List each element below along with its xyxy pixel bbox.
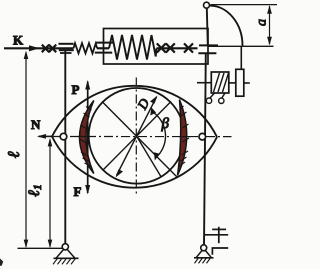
armature link vertical <box>240 46 242 69</box>
coil terminal stem right <box>222 93 225 98</box>
lens lever bottom arc <box>52 137 217 188</box>
pivot circle right <box>199 133 206 140</box>
axis vertical dash-dot <box>135 78 137 197</box>
pivot circle top right <box>204 2 210 8</box>
node K arrowhead <box>29 45 40 51</box>
radial lower right <box>137 136 162 178</box>
lever right main <box>204 53 206 245</box>
clevis plate lower left <box>59 49 74 51</box>
arrow F down <box>85 185 90 195</box>
force line P-F vertical <box>87 82 89 194</box>
wire between coil and armature <box>229 82 236 84</box>
support left base line <box>54 257 79 259</box>
angle beta arc <box>152 112 165 158</box>
force N arrow <box>39 135 54 137</box>
svg-text:P: P <box>72 82 80 97</box>
spring S1 small <box>74 43 98 53</box>
diameter D arrow line <box>117 97 157 176</box>
support right hatching <box>195 258 211 264</box>
joint cross X1 <box>42 45 49 53</box>
support right triangle <box>196 251 212 258</box>
slider plate lower right <box>198 52 216 54</box>
rod segment after big spring <box>157 47 198 49</box>
support left triangle <box>56 250 75 259</box>
svg-text:ℓ: ℓ <box>4 151 23 158</box>
corner smudge bottom left <box>0 259 3 267</box>
svg-text:β: β <box>161 116 170 132</box>
clevis plate upper left <box>59 43 74 45</box>
clevis T-bar left <box>60 52 72 54</box>
diagonal NW-SE <box>102 102 178 178</box>
arrow P up <box>85 80 90 90</box>
rod segment between springs <box>97 47 109 49</box>
wire right of armature <box>244 82 250 84</box>
pivot circle left <box>60 133 67 140</box>
brake shoe left <box>80 101 94 174</box>
support right pin circle <box>201 245 207 251</box>
slider plate upper right <box>199 44 218 46</box>
extension line bottom <box>18 247 65 249</box>
axis dash over left shoe <box>79 136 91 138</box>
electromagnet wire left <box>197 82 211 84</box>
svg-text:N: N <box>31 117 41 132</box>
joint cross X4 <box>166 43 175 52</box>
svg-text:a: a <box>255 19 270 26</box>
joint cross X3 <box>157 43 166 52</box>
axis horizontal dash-dot <box>53 136 232 138</box>
joint cross X5 <box>184 43 193 52</box>
electromagnet coil box <box>211 72 229 93</box>
lever left vertical <box>64 50 66 244</box>
spring S2 large <box>109 35 157 60</box>
adjuster bar short <box>212 228 226 230</box>
axis dash over right shoe <box>179 136 191 138</box>
armature plate <box>236 69 244 96</box>
coil terminal stem left <box>210 93 215 98</box>
drum circle <box>89 88 185 184</box>
dimension line l <box>25 53 27 248</box>
support right base line <box>194 257 214 259</box>
adjuster stem <box>218 227 220 243</box>
diagonal SW-NE <box>103 102 171 171</box>
spring seat bar upper <box>96 42 115 44</box>
spring housing box <box>104 29 209 65</box>
brake shoe right <box>178 100 187 176</box>
dimension line a <box>269 6 271 44</box>
joint cross X2 <box>49 45 56 53</box>
adjuster step bracket <box>212 248 228 255</box>
spring seat bar lower <box>95 52 112 54</box>
coil terminal circle right <box>219 98 224 103</box>
coil hatch lines <box>214 73 220 92</box>
bell crank arc <box>210 6 243 46</box>
coil terminal circle left <box>206 98 211 103</box>
svg-text:K: K <box>13 33 24 48</box>
support left pin circle <box>62 244 68 250</box>
lever right upper stub <box>207 8 208 45</box>
extension line a bottom rod <box>209 45 274 47</box>
extension line a top <box>211 4 278 6</box>
wire rod main horizontal <box>4 47 74 49</box>
lens lever top arc <box>52 86 217 137</box>
support left hatching <box>53 258 76 264</box>
adjuster bar long <box>204 234 228 236</box>
svg-text:F: F <box>74 184 82 199</box>
dimension line l1 <box>49 140 51 248</box>
